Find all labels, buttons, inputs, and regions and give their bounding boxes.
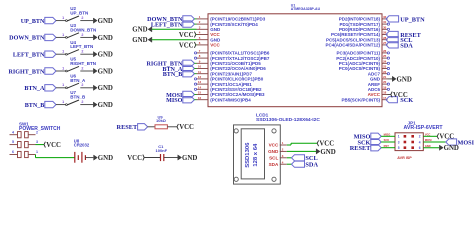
svg-text:(PCINT4/MISO)PB4: (PCINT4/MISO)PB4: [210, 97, 251, 102]
switch U3 DOWN_BTN: [62, 23, 96, 38]
JP1 pins 3/4: [384, 138, 432, 144]
power VCC (U1 left): [179, 42, 196, 49]
svg-text:BTN_B: BTN_B: [163, 72, 183, 78]
wire JP1 to VCC: [423, 135, 437, 137]
svg-text:SDA: SDA: [269, 162, 279, 167]
net label DOWN_BTN: [9, 34, 56, 42]
wire SCK to JP1: [381, 141, 395, 143]
power VCC (JP1): [437, 133, 454, 140]
ground symbol (LCD1): [316, 149, 336, 156]
svg-text:2: 2: [81, 33, 83, 37]
svg-text:GND: GND: [444, 145, 459, 152]
wire GND to U1: [152, 28, 197, 30]
svg-text:PC4(ADC4/SDA/PCINT12): PC4(ADC4/SDA/PCINT12): [325, 43, 380, 48]
svg-text:VCC: VCC: [127, 155, 142, 162]
switch U4 LEFT_BTN: [62, 40, 93, 55]
svg-text:128 x 64: 128 x 64: [253, 143, 259, 167]
resistor U9 10kΩ: [155, 114, 167, 129]
svg-text:15: 15: [198, 91, 202, 95]
svg-text:GND: GND: [98, 18, 113, 25]
svg-text:VCC: VCC: [439, 134, 454, 141]
net label DOWN_BTN (U1 left): [147, 16, 196, 24]
svg-text:10kΩ: 10kΩ: [156, 118, 167, 123]
power VCC (U1 left): [179, 32, 196, 39]
U1 pin 27 PC4(ADC4/SDA/PCINT12): [325, 41, 387, 48]
U1 pin 9 (PCINT21/OC0B/T1)PD5: [197, 59, 262, 66]
wire JP1 to GND: [423, 147, 439, 149]
ground symbol (C1): [178, 155, 198, 162]
U1 pin 18 AVCC: [368, 91, 388, 98]
net label SDA (U1 right): [386, 42, 413, 50]
wire RESET to JP1: [381, 147, 395, 149]
svg-text:1: 1: [62, 50, 64, 54]
U1 pin 24 PC1(ADC1/PCINT9): [339, 59, 390, 66]
svg-text:2: 2: [419, 135, 421, 139]
svg-text:BTN_A: BTN_A: [24, 86, 45, 92]
ground symbol (BTN_B switch): [93, 102, 113, 109]
power VCC (U1 AVCC): [388, 92, 408, 99]
U1 pin 31 PD1(TXD/PCINT17): [339, 20, 389, 27]
U1 pin 29 PC6(RESET#/PCINT14): [331, 31, 388, 38]
svg-text:GND: GND: [98, 155, 113, 162]
svg-text:PB5(SCK/PCINT5): PB5(SCK/PCINT5): [341, 97, 380, 102]
svg-text:2: 2: [81, 16, 83, 20]
SW1 pole 1 (pins 4/2): [10, 130, 39, 138]
wire VCC to U1: [195, 34, 198, 36]
svg-text:26: 26: [383, 49, 387, 53]
net label RESET (U1 right): [386, 31, 422, 39]
LCD1 pin 3 SCL: [269, 154, 287, 161]
wire U7 pin 2 to GND: [80, 104, 93, 106]
U1 pin 23 PC0(ADC0/PCINT8): [339, 65, 390, 72]
svg-text:LEFT_BTN: LEFT_BTN: [70, 44, 93, 49]
svg-text:10: 10: [198, 65, 202, 69]
net label MISO (U1 left): [166, 97, 196, 105]
U1 pin 3 GND: [197, 25, 222, 32]
svg-text:1: 1: [62, 66, 64, 70]
svg-text:VCC: VCC: [179, 32, 194, 39]
svg-text:24: 24: [383, 59, 387, 63]
U1 pin 17 PB5(SCK/PCINT5): [341, 96, 387, 103]
svg-text:GND: GND: [320, 149, 335, 156]
net label SCK (JP1): [357, 139, 381, 147]
wire RESET to U9: [148, 126, 155, 128]
ground symbol (UP_BTN switch): [93, 18, 113, 25]
svg-text:SSD1306-OLED-128X64-I2C: SSD1306-OLED-128X64-I2C: [256, 117, 320, 123]
U1 pin 1 (PCINT19/OC2B/INT1)PD3: [197, 15, 266, 22]
power VCC (SW1): [36, 142, 62, 149]
net label LEFT_BTN: [13, 51, 56, 59]
svg-text:BTN_B: BTN_B: [70, 95, 86, 100]
svg-text:AVR ISP: AVR ISP: [397, 156, 412, 160]
U1 pin 10 (PCINT22/OC0A/AIN0)PD6: [197, 65, 267, 72]
wire U8 to GND: [85, 157, 93, 159]
U1 pin 20 AREF: [368, 80, 390, 87]
svg-text:POWER_SWITCH: POWER_SWITCH: [19, 126, 61, 132]
wire U4 pin 2 to GND: [80, 53, 93, 55]
svg-text:2: 2: [81, 50, 83, 54]
svg-text:GND: GND: [268, 149, 279, 154]
svg-text:4: 4: [419, 140, 421, 144]
ground symbol (DOWN_BTN switch): [93, 35, 113, 42]
net label BTN_A: [24, 85, 56, 93]
U1 pin 8 (PCINT7/XTAL2/TOSC2)PB7: [194, 54, 269, 61]
svg-text:3: 3: [398, 140, 400, 144]
microcontroller U1 ATMEGA328P-AU: [208, 3, 382, 106]
switch SW1 POWER_SWITCH: [19, 121, 61, 131]
wire JP1 to MOSI: [423, 141, 446, 143]
LCD1 pin 4 SDA: [269, 160, 287, 167]
U1 pin 30 PD0(RXD/PCINT16): [339, 25, 390, 32]
svg-text:DOWN_BTN: DOWN_BTN: [70, 27, 96, 32]
net label UP_BTN (U1 right): [386, 16, 425, 23]
svg-text:21: 21: [383, 75, 387, 79]
LCD1 pin 2 GND: [268, 148, 287, 155]
switch U7 BTN_B: [62, 90, 86, 105]
switch U5 RIGHT_BTN: [62, 57, 96, 72]
svg-text:RESET: RESET: [350, 145, 371, 152]
wire U2 pin 2 to GND: [80, 20, 93, 22]
wire BTN_A to U6 pin 1: [56, 87, 66, 89]
svg-text:6: 6: [419, 146, 421, 150]
net label MOSI (JP1): [446, 139, 474, 147]
U1 pin 16 (PCINT4/MISO)PB4: [197, 96, 252, 103]
wire MISO to JP1: [381, 135, 395, 137]
power VCC (C1): [127, 155, 144, 162]
svg-text:AVR-ISP-6VERT: AVR-ISP-6VERT: [404, 125, 444, 131]
svg-text:SCL: SCL: [269, 156, 278, 161]
net label RESET (JP1): [350, 145, 381, 153]
net label LEFT_BTN (U1 left): [151, 21, 197, 29]
svg-text:ATMEGA328P-AU: ATMEGA328P-AU: [291, 7, 321, 11]
net label SCK (U1 right): [386, 97, 413, 105]
svg-text:6: 6: [12, 150, 14, 154]
U1 pin 22 ADC7: [368, 70, 390, 77]
svg-text:GND: GND: [98, 35, 113, 42]
net label BTN_B (U1 left): [163, 71, 197, 79]
svg-text:20: 20: [383, 80, 387, 84]
svg-text:1: 1: [62, 100, 64, 104]
svg-text:31: 31: [383, 20, 387, 24]
svg-text:VCC: VCC: [269, 143, 279, 148]
net label RESET (pull-up): [117, 124, 148, 132]
U1 pin 15 (PCINT3/OC2A/MOSI)PB3: [197, 91, 266, 98]
svg-text:VCC: VCC: [179, 42, 194, 49]
svg-text:16: 16: [198, 96, 202, 100]
ground symbol (JP1): [439, 145, 459, 152]
svg-text:GND: GND: [397, 76, 412, 83]
U1 pin 13 (PCINT1/OC1A)PB1: [194, 80, 252, 87]
svg-text:CR2032: CR2032: [74, 143, 90, 148]
JP1 pins 1/2: [384, 133, 431, 139]
ground symbol (U1 right): [388, 76, 412, 83]
wire C1 to GND: [164, 157, 178, 159]
svg-text:UP_BTN: UP_BTN: [400, 16, 425, 23]
net label BTN_B: [25, 101, 56, 109]
wire LCD1 GND: [287, 150, 316, 152]
U1 pin 26 PC3(ADC3/PCINT11): [336, 49, 389, 56]
svg-text:BTN_B: BTN_B: [25, 103, 45, 109]
U1 pin 19 ADC6: [368, 85, 390, 92]
JP1 pins 5/6: [384, 144, 431, 150]
U1 pin 25 PC2(ADC2/PCINT10): [336, 54, 389, 61]
svg-text:4: 4: [12, 130, 14, 134]
switch U6 BTN_A: [62, 73, 86, 88]
net label RIGHT_BTN: [8, 68, 56, 76]
svg-text:VCC: VCC: [319, 141, 334, 148]
svg-text:VCC: VCC: [210, 43, 220, 48]
svg-text:2: 2: [81, 100, 83, 104]
ground symbol (LEFT_BTN switch): [93, 52, 113, 59]
U1 pin 21 GND: [370, 75, 388, 82]
SW1 pole 2 (pins 5/3): [10, 140, 39, 148]
svg-text:23: 23: [383, 65, 387, 69]
U1 pin 7 (PCINT6/XTAL1/TOSC1)PB6: [194, 49, 269, 56]
svg-text:GND: GND: [98, 85, 113, 92]
svg-text:SDA: SDA: [400, 42, 413, 49]
wire VCC to C1: [144, 157, 160, 159]
svg-text:30: 30: [383, 25, 387, 29]
wire U6 pin 2 to GND: [80, 87, 93, 89]
connector JP1 AVR-ISP-6VERT: [395, 120, 443, 160]
net label SCL (LCD1): [287, 155, 318, 163]
wire RIGHT_BTN to U5 pin 1: [56, 70, 66, 72]
wire UP_BTN to U2 pin 1: [56, 20, 66, 22]
svg-text:GND: GND: [132, 37, 147, 44]
svg-text:VCC: VCC: [393, 92, 408, 99]
svg-text:SSD1306: SSD1306: [245, 142, 251, 168]
ground symbol (U1 left): [132, 37, 152, 44]
svg-text:14: 14: [198, 85, 202, 89]
U1 pin 2 (PCINT20/XCK/T0)PD4: [197, 20, 259, 27]
display LCD1 SSD1306-OLED-128X64-I2C: [234, 112, 321, 184]
net label UP_BTN: [21, 17, 56, 25]
U1 pin 32 PD2(INT0/PCINT18): [339, 15, 388, 22]
power VCC (LCD1): [317, 140, 334, 147]
svg-text:SDA: SDA: [305, 162, 318, 169]
svg-text:1: 1: [36, 150, 38, 154]
wire GND to U1: [152, 39, 197, 41]
svg-text:1: 1: [62, 16, 64, 20]
svg-text:12: 12: [198, 75, 202, 79]
svg-text:RIGHT_BTN: RIGHT_BTN: [8, 69, 44, 75]
svg-text:1: 1: [398, 135, 400, 139]
ground symbol (battery): [94, 155, 114, 162]
wire LEFT_BTN to U4 pin 1: [56, 53, 66, 55]
svg-text:MOSI: MOSI: [458, 139, 474, 146]
svg-text:LEFT_BTN: LEFT_BTN: [151, 22, 183, 28]
wire VCC to U1: [195, 44, 198, 46]
net label BTN_A (U1 left): [162, 65, 196, 73]
svg-text:5: 5: [12, 140, 14, 144]
svg-text:3: 3: [36, 140, 38, 144]
U1 pin 28 PC5(ADC5/SCL/PCINT13): [326, 36, 388, 43]
wire LCD1 VCC: [287, 143, 317, 145]
svg-text:22: 22: [383, 70, 387, 74]
wire BTN_B to U7 pin 1: [56, 104, 66, 106]
svg-text:LCD1: LCD1: [256, 112, 269, 117]
svg-text:19: 19: [383, 85, 387, 89]
svg-text:GND: GND: [98, 68, 113, 75]
net label SCL (U1 right): [386, 37, 412, 45]
svg-text:MISO: MISO: [166, 98, 183, 104]
ground symbol (U1 left): [132, 27, 152, 34]
svg-text:11: 11: [198, 70, 201, 74]
wire DOWN_BTN to U3 pin 1: [56, 36, 66, 38]
svg-text:VCC: VCC: [46, 142, 61, 149]
svg-text:GND: GND: [182, 155, 197, 162]
svg-text:UP_BTN: UP_BTN: [21, 19, 45, 25]
svg-text:100nF: 100nF: [156, 148, 168, 153]
ground symbol (BTN_A switch): [93, 85, 113, 92]
U1 pin 4 VCC: [197, 31, 221, 38]
LCD1 pin 1 VCC: [269, 141, 287, 148]
SW1 pole 3 (pins 6/1): [10, 150, 39, 157]
svg-text:RESET: RESET: [117, 124, 138, 131]
wire U9 to VCC: [167, 126, 177, 128]
svg-text:13: 13: [198, 80, 202, 84]
svg-text:DOWN_BTN: DOWN_BTN: [9, 36, 45, 42]
capacitor C1 100nF: [156, 144, 168, 161]
wire SW1 to battery U8: [36, 155, 75, 158]
svg-text:1: 1: [62, 83, 64, 87]
svg-text:VCC: VCC: [179, 124, 194, 131]
net label MOSI (U1 left): [166, 91, 196, 99]
wire U3 pin 2 to GND: [80, 36, 93, 38]
svg-text:25: 25: [383, 54, 387, 58]
svg-text:BTN_A: BTN_A: [70, 78, 86, 83]
svg-text:RIGHT_BTN: RIGHT_BTN: [70, 61, 96, 66]
U1 pin 11 (PCINT23/AIN1)PD7: [197, 70, 253, 77]
switch U2 UP_BTN: [62, 6, 88, 21]
svg-text:18: 18: [383, 91, 387, 95]
svg-text:GND: GND: [132, 27, 147, 34]
net label SDA (LCD1): [287, 161, 319, 169]
svg-text:GND: GND: [98, 52, 113, 59]
battery U8 CR2032: [74, 138, 90, 162]
svg-text:LEFT_BTN: LEFT_BTN: [13, 53, 45, 59]
svg-text:2: 2: [36, 130, 38, 134]
U1 pin 12 (PCINT0/CLKO/ICP1)PB0: [194, 75, 263, 82]
svg-text:UP_BTN: UP_BTN: [70, 11, 88, 16]
svg-text:2: 2: [81, 66, 83, 70]
svg-text:1: 1: [62, 33, 64, 37]
svg-text:GND: GND: [98, 102, 113, 109]
wire U5 pin 2 to GND: [80, 70, 93, 72]
ground symbol (RIGHT_BTN switch): [93, 68, 113, 75]
power VCC (U9): [177, 124, 194, 131]
U1 pin 14 (PCINT2/SS#/OC1B)PB2: [194, 85, 262, 92]
svg-text:2: 2: [81, 83, 83, 87]
net label MISO (JP1): [354, 133, 382, 141]
U1 pin 5 GND: [197, 36, 222, 43]
svg-text:5: 5: [398, 146, 400, 150]
U1 pin 6 VCC: [197, 41, 221, 48]
net label RIGHT_BTN (U1 left): [146, 60, 196, 68]
